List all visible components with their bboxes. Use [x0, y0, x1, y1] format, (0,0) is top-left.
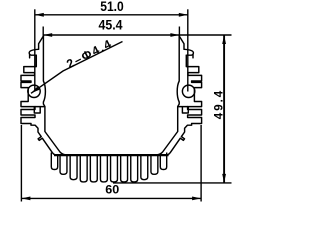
svg-text:2–Φ4.4: 2–Φ4.4: [64, 36, 115, 71]
svg-text:45.4: 45.4: [99, 17, 123, 32]
svg-text:49.4: 49.4: [213, 89, 225, 119]
svg-text:51.0: 51.0: [100, 0, 124, 14]
svg-text:60: 60: [105, 183, 119, 197]
